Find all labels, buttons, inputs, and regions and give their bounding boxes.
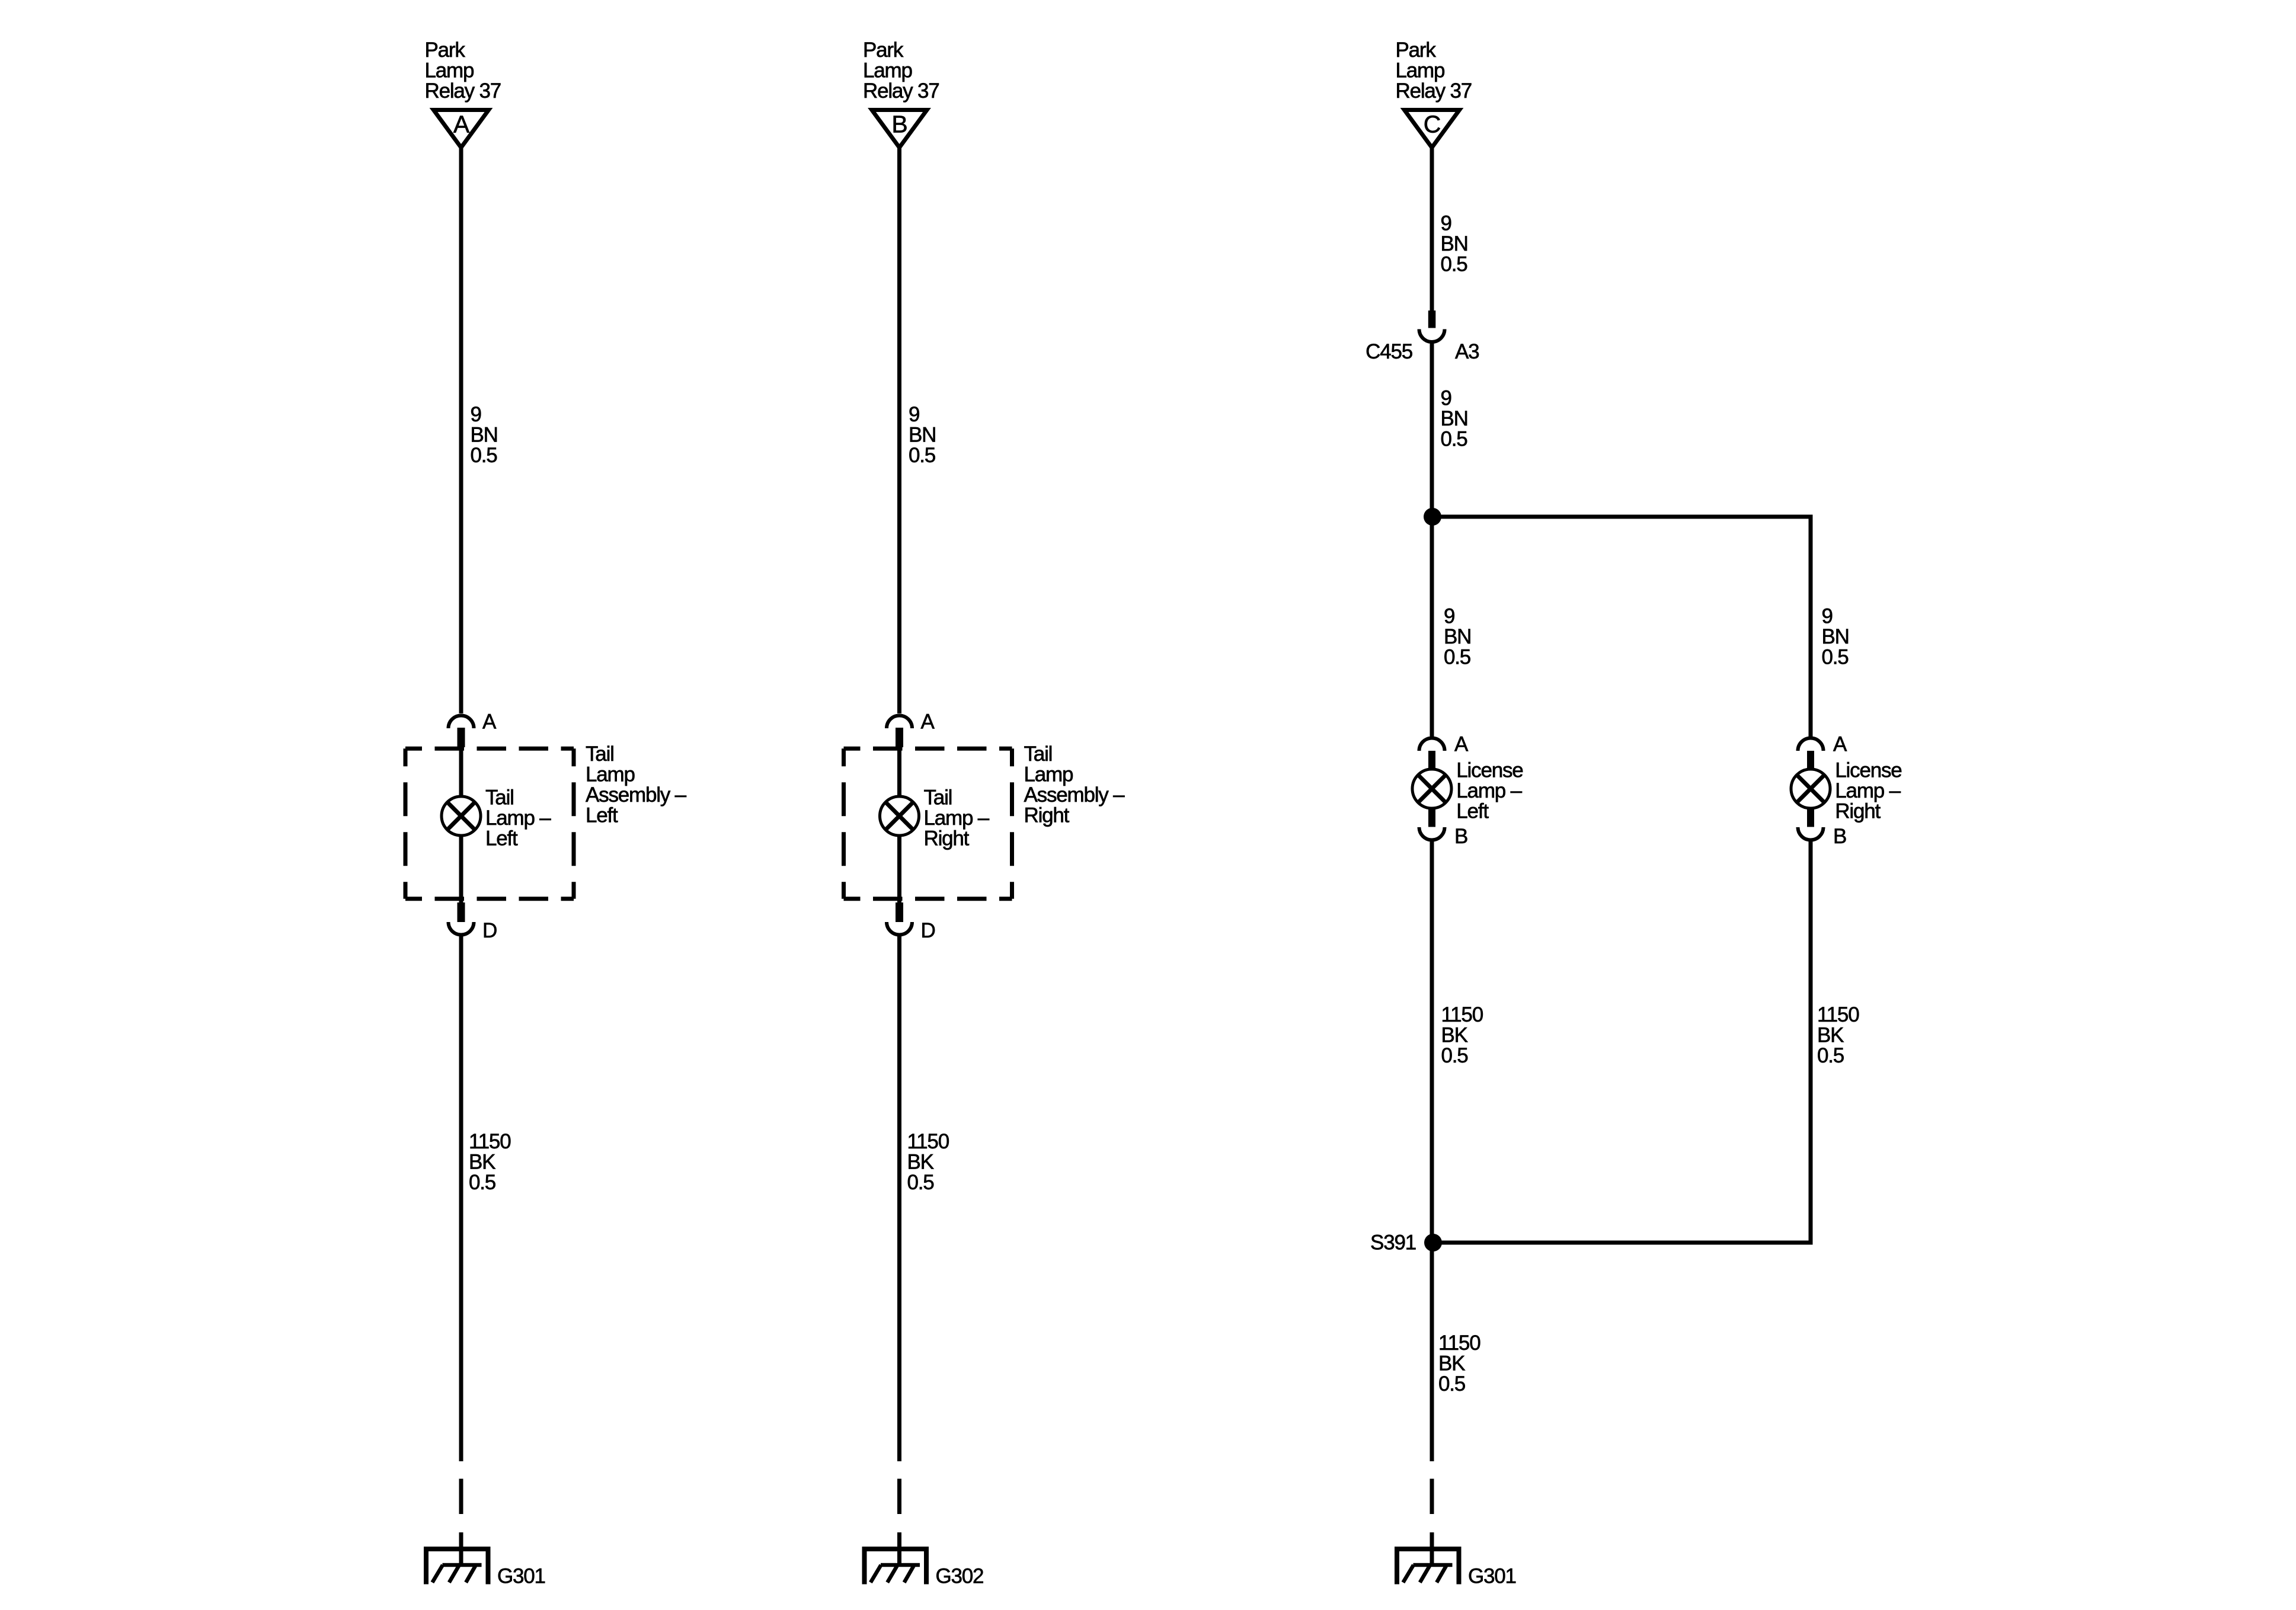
wire label 9 BN 0.5 (left branch): [1444, 605, 1471, 669]
wire inside box (lamp to pin D): [459, 836, 463, 902]
svg-text:BN: BN: [1441, 407, 1468, 430]
wire label 1150 BK 0.5: [907, 1130, 949, 1194]
svg-text:B: B: [1454, 825, 1467, 848]
wire label 1150 BK 0.5 (left branch): [1441, 1003, 1483, 1067]
svg-text:Park: Park: [425, 39, 466, 62]
wire inside box (pin A to lamp): [459, 747, 463, 796]
svg-text:Relay 37: Relay 37: [1396, 79, 1472, 103]
svg-text:Tail: Tail: [485, 786, 514, 809]
wire: License Lamp Right pin B to splice S391 (vertical + bottom horizontal): [1432, 840, 1811, 1243]
svg-text:0.5: 0.5: [909, 444, 935, 467]
svg-text:BN: BN: [1444, 625, 1471, 648]
svg-text:A: A: [482, 710, 497, 734]
svg-text:B: B: [1833, 825, 1846, 848]
svg-text:9: 9: [1822, 605, 1833, 628]
svg-text:1150: 1150: [1817, 1003, 1859, 1026]
svg-text:9: 9: [471, 403, 481, 426]
svg-text:Left: Left: [1456, 800, 1489, 823]
wire: relay C to connector C455, 9 BN 0.5: [1430, 148, 1434, 312]
svg-text:Lamp –: Lamp –: [485, 806, 551, 830]
wire: S391 to ground G301, 1150 BK 0.5: [1430, 1243, 1434, 1461]
power feed triangle A (Park Lamp Relay 37, column A): [425, 39, 501, 148]
svg-text:BN: BN: [1441, 232, 1468, 255]
wire: tail lamp left pin D to ground G301, 1150 BK 0.5: [459, 935, 463, 1461]
svg-text:Assembly –: Assembly –: [1024, 783, 1125, 806]
wire: relay B to tail lamp right pin A, 9 BN 0.5: [897, 148, 901, 713]
label: License Lamp - Right: [1835, 759, 1901, 823]
svg-text:BN: BN: [909, 424, 936, 447]
svg-text:Tail: Tail: [1024, 742, 1053, 766]
wire label 9 BN 0.5 (right branch): [1822, 605, 1849, 669]
svg-text:0.5: 0.5: [1444, 646, 1470, 669]
wire label 1150 BK 0.5 (right branch): [1817, 1003, 1859, 1067]
wire label 1150 BK 0.5: [469, 1130, 511, 1194]
wire label 9 BN 0.5: [471, 403, 498, 467]
svg-text:A: A: [453, 111, 470, 138]
svg-text:Lamp: Lamp: [586, 763, 635, 786]
lamp: Tail Lamp - Left: [442, 796, 481, 836]
svg-text:0.5: 0.5: [1441, 253, 1467, 276]
svg-text:Right: Right: [1835, 800, 1881, 823]
svg-text:BN: BN: [1822, 625, 1849, 648]
label: Tail Lamp Assembly - Right: [1024, 742, 1125, 827]
svg-text:Lamp: Lamp: [425, 59, 474, 82]
wire label 9 BN 0.5: [1441, 387, 1468, 451]
svg-text:Tail: Tail: [924, 786, 952, 809]
svg-text:G302: G302: [936, 1565, 984, 1588]
svg-text:D: D: [482, 919, 497, 942]
wire (dashed continuation to ground): [459, 1479, 463, 1515]
lamp: License Lamp - Left: [1412, 769, 1451, 808]
connector pin B (License Lamp Right): [1798, 808, 1847, 848]
wire inside box (pin A to lamp): [897, 747, 901, 796]
power feed triangle B (Park Lamp Relay 37, column B): [863, 39, 939, 148]
wire inside box (lamp to pin D): [897, 836, 901, 902]
label: Tail Lamp Assembly - Left: [586, 742, 687, 827]
connector pin D (Tail Lamp Assembly Right): [887, 902, 935, 942]
svg-text:D: D: [921, 919, 935, 942]
label: Tail Lamp - Left: [485, 786, 551, 850]
svg-text:0.5: 0.5: [907, 1171, 934, 1194]
svg-text:Lamp: Lamp: [1024, 763, 1073, 786]
svg-text:1150: 1150: [1441, 1003, 1483, 1026]
connector pin A (Tail Lamp Assembly Left): [449, 710, 497, 748]
ground G301: [1395, 1547, 1516, 1588]
lamp: License Lamp - Right: [1791, 769, 1830, 808]
svg-text:BN: BN: [471, 424, 498, 447]
component dashed box: Tail Lamp Assembly - Right: [844, 748, 1012, 899]
svg-text:Lamp –: Lamp –: [924, 806, 990, 830]
wire: relay A to tail lamp left pin A, 9 BN 0.5: [459, 148, 463, 713]
connector pin A (License Lamp Left): [1419, 733, 1469, 770]
component dashed box: Tail Lamp Assembly - Left: [405, 748, 574, 899]
svg-text:C: C: [1424, 111, 1441, 138]
svg-text:Park: Park: [1396, 39, 1437, 62]
svg-text:G301: G301: [1468, 1565, 1516, 1588]
ground G302: [862, 1547, 984, 1588]
svg-text:A: A: [1833, 733, 1847, 756]
svg-text:BK: BK: [907, 1151, 934, 1174]
svg-text:0.5: 0.5: [1817, 1044, 1844, 1067]
svg-text:S391: S391: [1370, 1231, 1416, 1254]
svg-text:0.5: 0.5: [1441, 428, 1467, 451]
wire label 9 BN 0.5: [1441, 212, 1468, 276]
wire (dashed continuation to ground): [1430, 1479, 1434, 1515]
svg-text:Assembly –: Assembly –: [586, 783, 687, 806]
svg-text:License: License: [1835, 759, 1901, 782]
svg-text:Relay 37: Relay 37: [425, 79, 501, 103]
svg-text:1150: 1150: [907, 1130, 949, 1153]
svg-text:0.5: 0.5: [1822, 646, 1849, 669]
connector pin A (Tail Lamp Assembly Right): [887, 710, 935, 748]
label: Tail Lamp - Right: [924, 786, 990, 850]
svg-text:0.5: 0.5: [1441, 1044, 1468, 1067]
svg-text:9: 9: [1441, 387, 1451, 410]
svg-text:Lamp: Lamp: [1396, 59, 1445, 82]
svg-text:Park: Park: [863, 39, 904, 62]
junction node (splice to right branch): [1424, 508, 1441, 526]
svg-text:BK: BK: [1817, 1024, 1844, 1047]
wire: License Lamp Left pin B to splice S391, 1150 BK 0.5: [1430, 840, 1434, 1243]
connector pin B (License Lamp Left): [1419, 808, 1468, 848]
svg-text:0.5: 0.5: [469, 1171, 495, 1194]
svg-text:BK: BK: [1438, 1352, 1465, 1375]
svg-text:A: A: [1454, 733, 1469, 756]
svg-text:Right: Right: [1024, 804, 1070, 827]
wire: left branch down to License Lamp Left: [1430, 517, 1434, 738]
svg-text:Relay 37: Relay 37: [863, 79, 939, 103]
svg-text:Lamp –: Lamp –: [1835, 779, 1901, 802]
svg-text:1150: 1150: [469, 1130, 511, 1153]
label: License Lamp - Left: [1456, 759, 1523, 823]
svg-text:C455: C455: [1366, 340, 1412, 363]
svg-text:Lamp: Lamp: [863, 59, 912, 82]
wire: C455 to splice junction, 9 BN 0.5: [1430, 343, 1434, 517]
svg-text:Left: Left: [485, 827, 518, 850]
wire label 1150 BK 0.5: [1438, 1331, 1480, 1395]
svg-text:G301: G301: [497, 1565, 545, 1588]
wire: tail lamp right pin D to ground G302, 1150 BK 0.5: [897, 935, 901, 1461]
svg-text:9: 9: [1441, 212, 1451, 235]
svg-text:Right: Right: [924, 827, 970, 850]
svg-text:Lamp –: Lamp –: [1456, 779, 1522, 802]
splice junction S391: [1370, 1231, 1442, 1254]
svg-text:B: B: [891, 111, 907, 138]
wire label 9 BN 0.5: [909, 403, 936, 467]
svg-text:0.5: 0.5: [1438, 1372, 1465, 1395]
svg-text:A3: A3: [1455, 340, 1479, 363]
connector pin A (License Lamp Right): [1798, 733, 1848, 770]
power feed triangle C (Park Lamp Relay 37, column C): [1396, 39, 1472, 148]
svg-text:1150: 1150: [1438, 1331, 1480, 1355]
svg-text:9: 9: [1444, 605, 1454, 628]
wire: branch to License Lamp Right (top horizontal + right vertical): [1432, 517, 1811, 738]
svg-text:Tail: Tail: [586, 742, 614, 766]
svg-text:A: A: [921, 710, 935, 734]
svg-text:BK: BK: [1441, 1024, 1468, 1047]
wire (dashed continuation to ground): [897, 1479, 901, 1515]
svg-text:9: 9: [909, 403, 919, 426]
inline connector C455 pin A3: [1366, 311, 1479, 363]
svg-text:License: License: [1456, 759, 1523, 782]
connector pin D (Tail Lamp Assembly Left): [449, 902, 497, 942]
lamp: Tail Lamp - Right: [880, 796, 919, 836]
svg-text:Left: Left: [586, 804, 618, 827]
svg-text:BK: BK: [469, 1151, 495, 1174]
svg-text:0.5: 0.5: [471, 444, 497, 467]
ground G301: [424, 1547, 545, 1588]
